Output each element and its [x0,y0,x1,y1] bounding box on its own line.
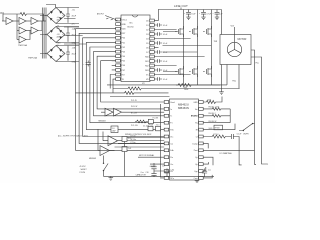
svg-text:Cgn: Cgn [194,171,197,173]
svg-text:MOTOR: MOTOR [238,38,247,41]
svg-text:C.Rx: C.Rx [170,170,174,172]
svg-text:D7: D7 [146,52,148,54]
svg-text:IN1: IN1 [0,11,5,15]
svg-text:D6: D6 [146,47,148,49]
svg-text:-Vs: -Vs [72,24,75,26]
svg-text:D3: D3 [146,34,148,36]
svg-text:W.CL.W: W.CL.W [131,106,138,108]
svg-text:Cp: Cp [195,157,197,159]
svg-text:Vosd: Vosd [170,102,174,104]
svg-text:OSC1: OSC1 [122,19,127,21]
svg-text:+Vs: +Vs [72,10,76,12]
svg-text:Fdb: Fdb [170,150,173,152]
svg-text:Fg: Fg [195,123,197,125]
svg-text:P00: P00 [122,38,125,40]
svg-text:0.1uF: 0.1uF [163,61,167,63]
svg-text:RU.BU.W: RU.BU.W [209,121,217,123]
svg-text:0.1uF: 0.1uF [163,34,167,36]
svg-text:GEN. CL: GEN. CL [150,166,157,168]
svg-text:ANT.FLT: ANT.FLT [97,13,105,16]
svg-text:RTo: RTo [170,130,173,132]
svg-text:T0: T0 [122,79,124,81]
svg-text:R02: R02 [145,65,148,67]
svg-text:R00: R00 [145,56,148,58]
svg-text:Vin: Vin [195,109,198,111]
svg-text:NC: NC [130,23,134,25]
svg-text:GND: GND [122,24,127,26]
svg-text:SPEED CONTROL VOL BOX: SPEED CONTROL VOL BOX [125,134,152,136]
svg-text:45uF: 45uF [72,15,77,17]
svg-text:Damp: Damp [193,143,198,145]
svg-text:R01: R01 [145,61,148,63]
svg-text:VDD: VDD [122,29,127,31]
svg-text:W.T.Gn: W.T.Gn [131,139,137,141]
svg-text:RT 1K: RT 1K [214,134,220,136]
svg-text:P.DCM: P.DCM [80,172,86,174]
svg-text:Cin: Cin [170,164,173,166]
svg-text:0.1uF: 0.1uF [163,79,167,81]
svg-text:P.T.Gn: P.T.Gn [131,142,136,144]
svg-text:BRAKE: BRAKE [191,115,198,118]
svg-text:Vref: Vref [231,26,235,28]
svg-text:F1: F1 [170,123,172,125]
svg-text:C10: C10 [146,172,149,174]
svg-text:100K: 100K [184,89,189,91]
svg-text:B.CL.W: B.CL.W [131,112,137,114]
svg-text:D0: D0 [146,20,148,22]
svg-text:Pba: Pba [256,63,259,65]
svg-text:LINE OUT: LINE OUT [174,4,188,8]
svg-text:P.CL.W: P.CL.W [131,100,137,102]
svg-text:In: In [170,109,172,111]
svg-text:5A SET: 5A SET [81,168,88,171]
svg-text:R03: R03 [145,70,148,72]
svg-text:Pin: Pin [170,157,173,159]
svg-text:RU.BU.1 47K: RU.BU.1 47K [209,106,221,108]
svg-text:P.L.GN: P.L.GN [153,118,159,120]
svg-text:P.CL.GN: P.CL.GN [131,125,138,127]
svg-text:MB3403: MB3403 [89,158,96,160]
svg-text:0.1uF: 0.1uF [163,25,167,27]
svg-text:TMPC6A: TMPC6A [18,44,27,47]
svg-text:Vcc: Vcc [170,136,173,138]
svg-text:Cmu: Cmu [194,178,198,180]
svg-text:TRQ: TRQ [232,81,236,83]
svg-text:MB463N: MB463N [178,106,189,110]
svg-text:(D) + SUPPLY FOR DACO CKTS: (D) + SUPPLY FOR DACO CKTS [58,135,88,138]
svg-text:P06: P06 [122,65,125,67]
svg-text:P01: P01 [122,42,125,44]
svg-text:MB3403: MB3403 [99,121,106,123]
svg-text:Cxx: Cxx [208,170,211,172]
svg-text:0.1uF: 0.1uF [163,43,167,45]
svg-text:D4: D4 [146,38,148,40]
svg-text:D5: D5 [146,43,148,45]
svg-text:BU.Sn: BU.Sn [128,27,135,29]
svg-text:P04: P04 [122,56,125,58]
svg-text:TMPC6A: TMPC6A [28,57,37,60]
svg-text:P03: P03 [122,52,125,54]
svg-text:45 VDC: 45 VDC [80,166,87,168]
svg-text:P07: P07 [122,70,125,72]
svg-text:Pout: Pout [194,149,198,152]
svg-text:D1: D1 [146,25,148,27]
svg-text:GND: GND [193,102,198,104]
svg-text:ZC.1: ZC.1 [156,124,160,126]
svg-text:I/O PARTIAL: I/O PARTIAL [220,152,233,155]
svg-text:1uF: 1uF [162,165,165,167]
svg-text:1uF: 1uF [128,148,131,150]
svg-text:CAPACITOR: CAPACITOR [136,174,147,177]
svg-text:45uF: 45uF [72,53,77,55]
svg-text:P02: P02 [122,47,125,49]
svg-text:RU.BU.2: RU.BU.2 [209,113,216,115]
svg-text:MOTOR SIGNAL: MOTOR SIGNAL [139,154,155,157]
svg-text:D2: D2 [146,29,148,31]
svg-text:P05: P05 [122,61,125,63]
svg-text:Vp: Vp [195,164,197,166]
svg-text:ON/FR: ON/FR [243,133,249,135]
svg-text:Tc: Tc [170,116,172,118]
